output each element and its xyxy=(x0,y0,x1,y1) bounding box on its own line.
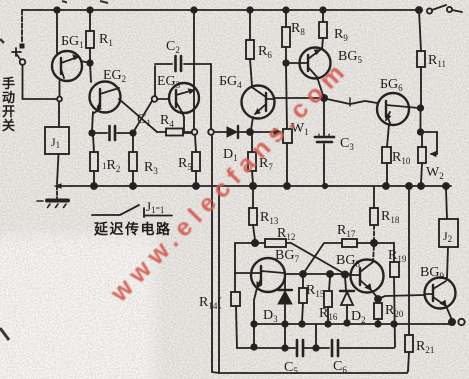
resistor R1 xyxy=(89,10,91,63)
node dot xyxy=(87,60,92,65)
node dot xyxy=(375,296,381,302)
node dot xyxy=(418,105,423,110)
resistor R21 xyxy=(405,335,413,352)
node dot xyxy=(321,95,327,101)
node dot xyxy=(284,183,290,189)
wire BG3 emitter xyxy=(182,112,192,133)
potentiometer W1 xyxy=(283,129,292,143)
relay J1 xyxy=(45,127,69,154)
resistor R13 xyxy=(253,189,255,240)
transistor BG1 xyxy=(52,51,82,81)
wire long column below D1 node xyxy=(212,135,219,373)
wire node down to relay J1 xyxy=(58,102,60,127)
node dots on output row xyxy=(251,321,256,326)
node dot xyxy=(418,129,423,134)
resistor R16b xyxy=(328,277,330,322)
resistor R11 xyxy=(419,10,421,106)
node dot output xyxy=(449,319,455,325)
resistor R9 xyxy=(322,10,323,49)
wire x410 column xyxy=(408,186,410,335)
manual switch xyxy=(20,44,25,49)
capacitor C5 xyxy=(297,340,303,356)
wire BG1 base from rail xyxy=(56,10,58,53)
wire top supply rail xyxy=(22,9,419,11)
wire BG1 collector xyxy=(81,61,90,63)
transistor BG4 xyxy=(242,86,275,119)
wire R1 node to BG2 xyxy=(90,63,91,82)
wire BG4 base row xyxy=(275,97,325,99)
power switch top right xyxy=(427,8,432,13)
wire BG8 collector xyxy=(373,246,374,261)
wire node to W1 wiper arrow xyxy=(252,131,274,133)
diode D1 xyxy=(227,127,237,137)
wire column from rail xyxy=(193,10,195,129)
resistor R10 xyxy=(382,147,391,163)
node junction small circle xyxy=(57,97,62,102)
ground xyxy=(56,186,58,198)
resistor R20 xyxy=(377,301,379,322)
wire BG9 collector to output xyxy=(446,306,452,320)
resistor R5 xyxy=(195,135,196,184)
resistor R8 xyxy=(285,10,287,63)
capacitor C6 xyxy=(332,340,338,356)
wire link rows xyxy=(315,324,317,348)
wire output row xyxy=(254,323,450,325)
wire bottom bus xyxy=(57,185,451,187)
node dot R8 xyxy=(283,60,288,65)
transistor BG9 xyxy=(425,278,456,309)
diode D2 xyxy=(345,277,346,290)
wire D1 row xyxy=(214,131,227,133)
wire cross coupling to R17 xyxy=(303,243,342,274)
wire J1 to ground bus xyxy=(57,154,59,184)
wire BG5 emitter xyxy=(317,77,323,95)
capacitor C3 xyxy=(323,101,325,183)
resistor R12 xyxy=(235,242,291,244)
transistor BG5 xyxy=(300,48,331,79)
node dots C row xyxy=(282,345,287,350)
transistor BG8 xyxy=(351,260,384,293)
resistor R7 xyxy=(252,135,253,184)
wire C2 right down xyxy=(210,64,212,128)
resistor R4 xyxy=(157,131,191,133)
wire second column xyxy=(218,186,220,372)
resistor R6 xyxy=(250,10,252,86)
node dot xyxy=(130,130,135,135)
wire BG3 base xyxy=(157,98,169,100)
wire R11 node down xyxy=(420,108,422,130)
node dot xyxy=(247,129,253,135)
node dot xyxy=(250,183,256,189)
edge smudges xyxy=(0,1,108,340)
resistor R2 xyxy=(93,135,94,184)
transistor BG7 xyxy=(251,258,285,292)
wire BG7 base xyxy=(235,272,251,274)
capacitor C2 xyxy=(155,63,211,65)
wire BG8 emitter xyxy=(371,290,377,297)
wire C2 left down to base node xyxy=(154,66,156,96)
wire R8 node down to W1 xyxy=(286,66,287,128)
node dot xyxy=(383,183,389,189)
bus node dots xyxy=(323,184,327,188)
potentiometer W2 loop xyxy=(421,132,438,154)
node dot xyxy=(418,183,424,189)
resistor R15 xyxy=(373,187,375,208)
wire BG2 collector diagonal to R4 xyxy=(119,99,157,132)
wire node to R18 xyxy=(374,243,394,262)
transistor BG3 xyxy=(169,83,199,113)
relay contact J1-1 sketch xyxy=(92,205,172,217)
lighter paper corner xyxy=(0,235,155,379)
node dot xyxy=(89,130,94,135)
node circle xyxy=(192,129,198,135)
wire C5 C6 row xyxy=(237,347,394,349)
node dot top rails xyxy=(54,7,59,12)
node dot xyxy=(130,183,136,189)
node circle BG3 base xyxy=(152,96,158,102)
wire BG6 emitter to R10 xyxy=(387,124,389,147)
wire BG2 emitter down xyxy=(92,112,93,131)
wire emitter row to BG9 base xyxy=(378,295,424,299)
wire left column to switch xyxy=(21,10,23,43)
node dots xyxy=(300,271,306,277)
capacitor C1 xyxy=(94,132,131,134)
wire BG6 collector xyxy=(408,107,419,108)
relay J2 xyxy=(446,189,448,278)
node dot xyxy=(193,183,199,189)
wire bottom bus xyxy=(219,371,408,373)
node dot xyxy=(252,240,258,246)
wire switch down to corner xyxy=(23,65,58,99)
node dot xyxy=(371,240,377,246)
wire BG7 emitter xyxy=(254,288,257,346)
diode D3 xyxy=(284,277,286,290)
wire R8 node to BG5 base xyxy=(286,62,300,64)
node circle xyxy=(208,129,214,135)
resistor R16a xyxy=(302,277,303,322)
node dot between caps xyxy=(313,345,318,350)
transistor BG2 xyxy=(90,82,121,113)
transistor BG6 xyxy=(377,93,409,125)
wire cross coupling R12 to BG8 base xyxy=(291,243,345,274)
wire diagonal C1 to BG3 base xyxy=(134,101,152,131)
node dot xyxy=(91,183,97,189)
output terminal xyxy=(458,319,464,325)
resistor R14 xyxy=(231,292,240,306)
wire BG7 left column xyxy=(234,243,236,292)
resistor R17 xyxy=(342,239,357,247)
wire emitter BG1 down to node xyxy=(59,81,61,96)
resistor R3 xyxy=(132,135,134,184)
resistor R18 xyxy=(390,262,399,277)
wire collector row xyxy=(285,273,349,275)
wire contact to BG6 base xyxy=(327,99,377,104)
wire BG4 emitter xyxy=(251,117,253,130)
svg-text:手动开关: 手动开关 xyxy=(2,76,15,133)
